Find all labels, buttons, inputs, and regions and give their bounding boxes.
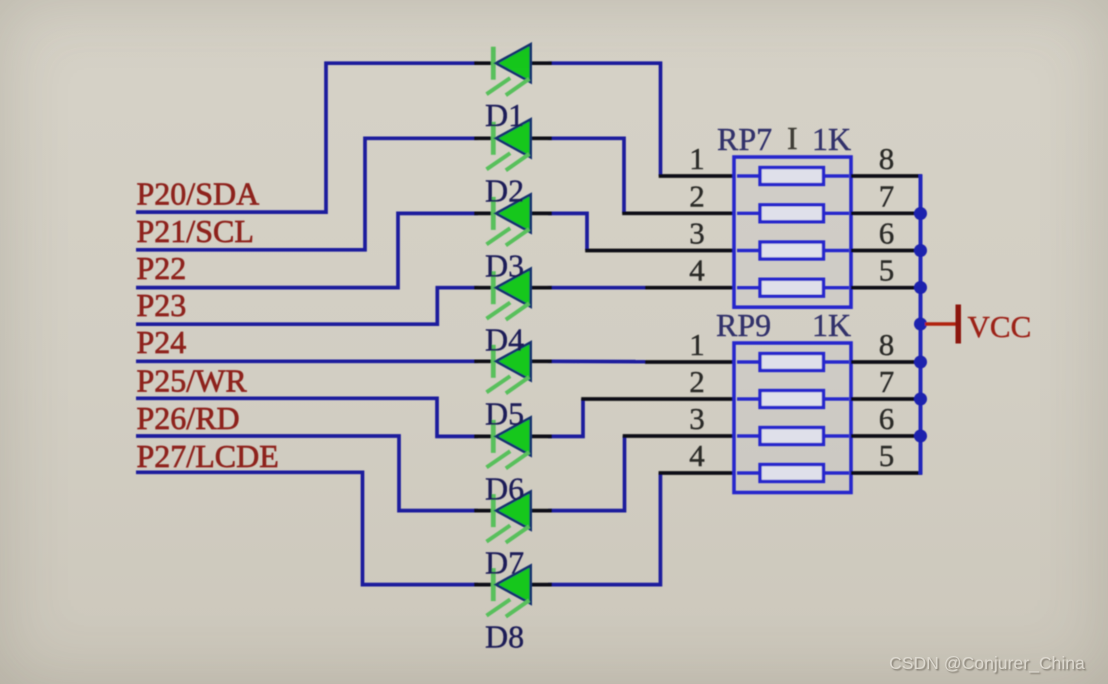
- resistor RP9.4: [737, 465, 849, 482]
- pin number 5 RP7: [879, 253, 895, 288]
- svg-text:1: 1: [689, 141, 705, 176]
- wire LED D2 anode to resistor pack pin: [548, 138, 734, 213]
- svg-text:P23: P23: [137, 287, 187, 323]
- svg-text:D7: D7: [485, 545, 524, 581]
- junction node on VCC bus y=287.5: [914, 281, 927, 294]
- svg-text:7: 7: [879, 364, 895, 399]
- svg-text:I: I: [787, 120, 798, 156]
- node label P22: [137, 250, 187, 286]
- wire net P22 from port to LED: [136, 213, 478, 287]
- wire LED D1 anode to resistor pack pin: [548, 63, 734, 176]
- label I (RP7): [787, 120, 798, 156]
- svg-text:5: 5: [879, 438, 895, 473]
- wire RP7 pin 7 to VCC bus: [851, 211, 922, 215]
- svg-text:D8: D8: [485, 619, 524, 655]
- svg-text:1: 1: [689, 327, 705, 362]
- pin number 4 RP7: [689, 253, 705, 288]
- svg-text:D1: D1: [485, 97, 524, 133]
- label D4: [485, 322, 524, 358]
- wire RP9 pin 7 to VCC bus: [851, 397, 922, 401]
- pin number 5 RP9: [879, 438, 895, 473]
- wire net P20 from port to LED: [136, 63, 478, 212]
- wire net P21 from port to LED: [136, 138, 478, 250]
- resistor pack RP9: [734, 343, 851, 493]
- resistor RP9.1: [737, 354, 849, 371]
- pin number 7 RP7: [879, 178, 895, 213]
- svg-text:P21/SCL: P21/SCL: [137, 213, 254, 249]
- svg-text:D3: D3: [485, 247, 524, 283]
- pin number 6 RP7: [879, 216, 895, 251]
- wire RP7 pin 8 to VCC bus: [851, 174, 922, 178]
- pin number 2 RP7: [689, 178, 705, 213]
- pin number 6 RP9: [879, 401, 895, 436]
- wire net P25 from port to LED: [136, 398, 478, 436]
- node label P27/LCDE: [137, 438, 279, 474]
- label RP9: [716, 307, 771, 343]
- svg-text:6: 6: [879, 216, 895, 251]
- label D3: [485, 247, 524, 283]
- value label 1K (RP7): [812, 121, 851, 157]
- svg-text:6: 6: [879, 401, 895, 436]
- svg-text:RP9: RP9: [716, 307, 771, 343]
- junction node on VCC bus y=436: [914, 430, 927, 443]
- LED D8: [474, 566, 552, 617]
- svg-text:P25/WR: P25/WR: [137, 362, 248, 398]
- svg-text:3: 3: [689, 401, 705, 436]
- resistor RP7.1: [737, 168, 849, 185]
- wire LED D6 anode to resistor pack pin: [548, 399, 734, 436]
- wire LED D7 anode to resistor pack pin: [548, 436, 734, 511]
- watermark CSDN @Conjurer_China: [889, 653, 1085, 674]
- junction node on VCC bus y=399: [914, 393, 927, 406]
- resistor RP7.4: [737, 279, 849, 296]
- label D1: [485, 97, 524, 133]
- resistor RP7.2: [737, 205, 849, 222]
- svg-text:RP7: RP7: [717, 121, 772, 157]
- pin number 3 RP7: [689, 216, 705, 251]
- svg-text:D6: D6: [485, 470, 524, 506]
- wire net P23 from port to LED: [136, 288, 478, 325]
- svg-text:P20/SDA: P20/SDA: [137, 175, 260, 211]
- pin number 7 RP9: [879, 364, 895, 399]
- wire net P27 from port to LED: [136, 472, 478, 584]
- pin number 2 RP9: [689, 364, 705, 399]
- svg-text:1K: 1K: [812, 121, 851, 157]
- pin number 8 RP9: [879, 327, 895, 362]
- label D8: [485, 619, 524, 655]
- node label P20/SDA: [137, 175, 260, 211]
- wire LED D5 anode to resistor pack pin: [548, 359, 734, 363]
- pin number 1 RP7: [689, 141, 705, 176]
- wire LED D8 anode to resistor pack pin: [548, 473, 734, 585]
- node label P23: [137, 287, 187, 323]
- svg-text:5: 5: [879, 253, 895, 288]
- wire RP7 pin 6 to VCC bus: [851, 249, 922, 253]
- svg-text:P24: P24: [137, 324, 187, 360]
- wire RP9 pin 5 to VCC bus: [851, 471, 922, 475]
- LED D7: [474, 492, 552, 543]
- resistor RP9.3: [737, 428, 849, 445]
- value label 1K (RP9): [812, 307, 851, 343]
- svg-text:2: 2: [689, 178, 705, 213]
- wire LED D4 anode to resistor pack pin: [548, 286, 734, 290]
- wire RP7 pin 5 to VCC bus: [851, 286, 922, 290]
- pin number 8 RP7: [879, 141, 895, 176]
- svg-text:D5: D5: [485, 395, 524, 431]
- LED D1: [474, 44, 552, 95]
- label D7: [485, 545, 524, 581]
- node label P24: [137, 324, 187, 360]
- wire LED D3 anode to resistor pack pin: [548, 213, 734, 250]
- svg-text:4: 4: [689, 253, 705, 288]
- resistor RP9.2: [737, 391, 849, 408]
- svg-text:D2: D2: [485, 172, 524, 208]
- node label P26/RD: [137, 400, 240, 436]
- label RP7: [717, 121, 772, 157]
- pin number 1 RP9: [689, 327, 705, 362]
- svg-text:3: 3: [689, 216, 705, 251]
- LED D6: [474, 417, 552, 468]
- svg-text:P27/LCDE: P27/LCDE: [137, 438, 279, 474]
- LED D3: [474, 194, 552, 245]
- wire RP9 pin 6 to VCC bus: [851, 434, 922, 438]
- wire net P26 from port to LED: [136, 436, 478, 511]
- svg-text:1K: 1K: [812, 307, 851, 343]
- svg-text:7: 7: [879, 178, 895, 213]
- resistor pack RP7: [734, 157, 851, 307]
- LED D2: [474, 119, 552, 170]
- pin number 3 RP9: [689, 401, 705, 436]
- svg-text:8: 8: [879, 141, 895, 176]
- wire net P24 from port to LED: [136, 359, 478, 363]
- wire RP9 pin 8 to VCC bus: [851, 360, 922, 364]
- label D5: [485, 395, 524, 431]
- svg-text:D4: D4: [485, 322, 524, 358]
- junction node on VCC bus y=213.5: [914, 207, 927, 220]
- label VCC: [968, 309, 1032, 344]
- label D6: [485, 470, 524, 506]
- wire VCC bus: [919, 174, 923, 475]
- power symbol VCC: [925, 305, 961, 344]
- svg-text:P22: P22: [137, 250, 187, 286]
- junction node on VCC bus y=324: [914, 318, 927, 331]
- junction node on VCC bus y=362: [914, 356, 927, 369]
- pin number 4 RP9: [689, 438, 705, 473]
- node label P25/WR: [137, 362, 248, 398]
- svg-text:2: 2: [689, 364, 705, 399]
- LED D5: [474, 342, 552, 393]
- node label P21/SCL: [137, 213, 254, 249]
- svg-text:8: 8: [879, 327, 895, 362]
- svg-text:VCC: VCC: [968, 309, 1032, 344]
- svg-text:P26/RD: P26/RD: [137, 400, 240, 436]
- junction node on VCC bus y=250.5: [914, 244, 927, 257]
- label D2: [485, 172, 524, 208]
- resistor RP7.3: [737, 242, 849, 259]
- svg-text:4: 4: [689, 438, 705, 473]
- LED D4: [474, 269, 552, 320]
